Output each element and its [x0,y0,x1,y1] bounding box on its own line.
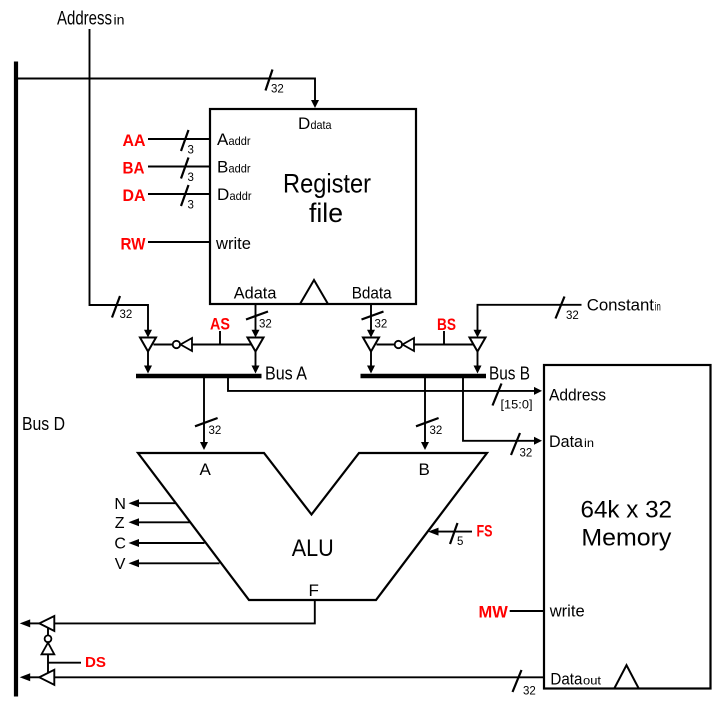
svg-text:V: V [115,556,126,573]
svg-text:BS: BS [437,315,456,334]
register file title [283,169,371,229]
svg-text:Data: Data [550,669,582,688]
svg-text:32: 32 [375,319,388,331]
wire Bus B to memory Data_in [463,378,536,441]
svg-text:32: 32 [520,448,533,460]
svg-text:32: 32 [430,425,443,437]
ALU body [138,453,487,600]
arrowhead into memory Address [534,387,542,395]
svg-text:AA: AA [123,131,146,150]
svg-text:in: in [655,300,661,314]
tri-state buffer DS lower (Data_out to Bus D) [39,670,54,685]
svg-text:5: 5 [457,536,463,548]
bus D thick vertical line [14,62,18,697]
inverter for AS (bubble + left triangle) [154,338,252,351]
flag N arrow [114,496,175,513]
arrowhead Bdata into buffer [367,330,375,338]
svg-text:N: N [114,496,126,513]
Bus A thick bar [136,374,262,379]
pin Ddata [298,114,332,133]
inverter for DS (bubble + up triangle) [42,628,55,673]
svg-text:ALU: ALU [292,535,334,562]
slash [15:0] on Address wire [493,384,533,412]
arrowhead Constant_in into buffer [474,330,482,338]
slash 3 on DA wire [181,185,194,212]
wire Bus D to Ddata (top horizontal) [14,79,315,102]
wire Address_in vertical down to AS mux [90,29,149,331]
svg-text:Z: Z [115,515,125,532]
svg-text:D: D [298,114,310,133]
wire ALU F output to DS buffer [55,600,315,623]
slash 3 on BA wire [181,158,194,185]
svg-text:addr: addr [229,134,251,148]
wire AS tick [219,331,221,345]
svg-text:32: 32 [271,84,284,96]
slash 32 on Data_in wire [511,433,532,460]
slash 32 on Constant_in wire [556,297,579,323]
svg-text:in: in [584,436,594,450]
svg-text:Address: Address [549,386,606,405]
tri-state buffer BS left [363,338,379,352]
svg-text:write: write [215,234,251,253]
svg-text:Address: Address [57,8,112,29]
memory title [581,497,673,552]
svg-text:B: B [217,158,228,177]
wire Bus B to ALU B input [424,378,426,444]
svg-text:Constant: Constant [587,296,655,315]
tri-state buffer AS left [140,338,156,352]
svg-text:F: F [309,581,319,600]
svg-text:3: 3 [188,145,194,157]
wire memory Data_out to DS lower buffer [54,676,544,678]
inverter for BS (bubble + left triangle) [377,338,474,351]
slash 32 on Bus D to Ddata wire [266,70,284,96]
wire BS right buffer to Bus B [477,352,479,367]
svg-text:Memory: Memory [581,525,671,552]
tri-state buffer BS right [470,338,486,352]
svg-text:32: 32 [566,310,579,322]
wire Constant_in to BS right buffer [478,305,582,331]
wire DA to Daddr [148,193,210,195]
wire DS tick [48,662,81,664]
pin Baddr [217,158,251,177]
arrowhead Adata into buffer [252,330,260,338]
wire FS to ALU [437,531,472,533]
wire BS left buffer to Bus B [370,352,372,367]
slash 32 on Adata wire [246,312,272,331]
tri-state buffer AS right [248,338,264,352]
wire Bus A to memory Address [228,378,536,391]
arrowhead into ALU A [200,442,208,450]
register file box [210,109,416,304]
svg-text:64k x 32: 64k x 32 [581,497,673,524]
svg-text:in: in [114,11,125,27]
pin Data_out (memory) [550,669,601,688]
slash 32 on Address_in branch [112,296,132,321]
svg-text:32: 32 [523,686,536,698]
svg-text:addr: addr [229,162,251,176]
slash 32 on Data_out wire [513,670,536,698]
Bus B thick bar [361,374,487,379]
svg-text:out: out [583,673,602,687]
svg-text:Register: Register [283,169,371,199]
pin Data_in (memory) [549,432,594,451]
arrowhead into AS left buffer [144,330,152,338]
wire Bus A to ALU A input [203,378,205,444]
svg-text:Bus B: Bus B [489,364,530,384]
memory clock triangle [614,665,639,689]
pin Aaddr [217,130,251,149]
wire AA to Aaddr [148,138,210,140]
svg-text:3: 3 [188,172,194,184]
flag Z arrow [115,515,191,532]
svg-text:BA: BA [123,159,145,178]
svg-text:Bus D: Bus D [22,414,65,434]
svg-text:AS: AS [210,315,230,334]
wire AS left buffer to Bus A [147,352,149,367]
wire buffer to Bus D with arrowhead [28,676,39,678]
wire Bdata down to BS left buffer [370,304,372,331]
slash 3 on AA wire [181,130,194,157]
wire BS tick [443,331,445,345]
arrowhead into memory Data_in [534,437,542,445]
svg-text:3: 3 [188,200,194,212]
svg-text:Adata: Adata [234,284,277,303]
svg-text:32: 32 [120,309,133,321]
svg-text:Bus A: Bus A [265,364,307,384]
slash 5 on FS wire [450,523,463,548]
wire BA to Baddr [148,166,210,168]
flag C arrow [114,536,204,553]
svg-text:RW: RW [121,235,147,254]
arrowhead into Ddata [311,100,319,108]
svg-text:32: 32 [209,425,222,437]
svg-text:A: A [200,460,212,479]
slash 32 on Bdata wire [362,312,388,331]
memory box [544,365,711,689]
arrowhead into Bus B left [367,366,375,374]
arrowhead into Bus A left [144,366,152,374]
pin Daddr [217,185,252,204]
svg-text:FS: FS [477,522,493,541]
wire buffer to Bus D with arrowhead [28,622,39,624]
flag V arrow [115,556,220,573]
arrowhead into Bus B right [474,366,482,374]
slash 32 on B input wire [416,418,442,437]
svg-text:data: data [311,118,332,132]
svg-text:32: 32 [259,319,272,331]
svg-text:Data: Data [549,432,584,451]
net Constant_in label [587,296,661,315]
svg-text:file: file [309,198,343,228]
tri-state buffer DS upper (F to Bus D) [39,616,54,631]
svg-text:D: D [217,185,229,204]
svg-text:addr: addr [230,189,252,203]
wire RW to write [148,241,210,243]
arrowhead into Bus A right [252,366,260,374]
net Address_in label [57,8,125,29]
wire Adata down to AS right buffer [255,304,257,331]
slash 32 on A input wire [195,418,221,437]
arrowhead into ALU B [421,442,429,450]
svg-text:DS: DS [85,654,106,671]
svg-text:Bdata: Bdata [352,284,392,303]
svg-text:DA: DA [123,186,146,205]
svg-text:[15:0]: [15:0] [501,400,533,412]
svg-text:MW: MW [479,603,509,622]
svg-text:write: write [549,602,585,621]
wire AS right buffer to Bus A [255,352,257,367]
wire MW to write [510,610,544,612]
register file clock triangle [300,280,328,304]
svg-text:A: A [217,130,229,149]
arrowhead FS into ALU [428,528,439,536]
svg-text:C: C [114,536,126,553]
svg-text:B: B [419,460,430,479]
